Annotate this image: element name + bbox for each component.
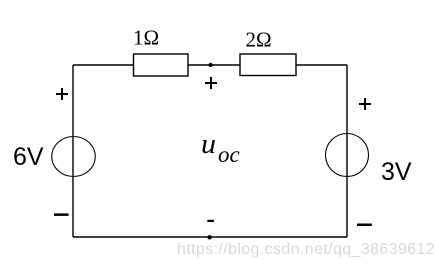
svg-text:3V: 3V (381, 158, 412, 186)
svg-text:oc: oc (218, 142, 240, 167)
svg-text:u: u (201, 129, 216, 160)
svg-text:6V: 6V (13, 143, 44, 171)
svg-text:2Ω: 2Ω (245, 28, 271, 52)
svg-text:https://blog.csdn.net/qq_38639: https://blog.csdn.net/qq_38639612 (177, 241, 435, 258)
svg-text:1Ω: 1Ω (133, 26, 159, 50)
